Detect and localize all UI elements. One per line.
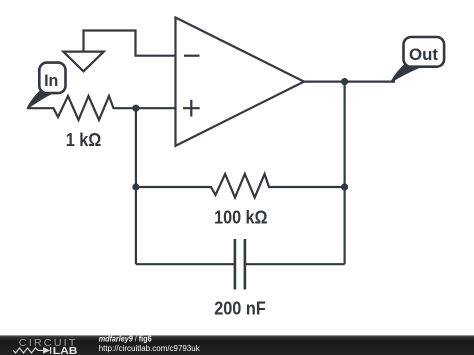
- svg-text:Out: Out: [409, 45, 438, 64]
- svg-text:100 kΩ: 100 kΩ: [214, 207, 268, 228]
- svg-text:1 kΩ: 1 kΩ: [66, 129, 102, 150]
- node A junction dot lower: [132, 183, 139, 190]
- svg-text:http://circuitlab.com/c9793uk: http://circuitlab.com/c9793uk: [99, 343, 201, 353]
- wire node A to op-amp non-inverting input: [136, 107, 176, 109]
- svg-text:LAB: LAB: [53, 345, 78, 355]
- svg-text:In: In: [44, 71, 58, 90]
- flag In: [28, 63, 66, 109]
- flag Out: [392, 37, 445, 82]
- footer bar: [0, 335, 474, 355]
- wire ground to op-amp inverting input: [84, 31, 177, 56]
- wire node A vertical: [135, 108, 137, 264]
- capacitor C1: [136, 239, 345, 290]
- CircuitLab logo resistor zigzag: [13, 348, 43, 353]
- ground: [63, 52, 104, 72]
- svg-text:200 nF: 200 nF: [214, 298, 266, 319]
- op-amp U1: [176, 18, 305, 146]
- output node junction dot lower: [341, 183, 348, 190]
- wire output: [304, 80, 395, 82]
- node A junction dot: [132, 105, 139, 112]
- output node junction dot: [341, 78, 348, 85]
- CircuitLab logo diode: [43, 347, 51, 354]
- resistor R2: [136, 174, 345, 198]
- resistor R1: [28, 96, 136, 120]
- svg-text:mdfarley9 / fig6: mdfarley9 / fig6: [99, 334, 152, 344]
- wire output node vertical: [344, 82, 346, 265]
